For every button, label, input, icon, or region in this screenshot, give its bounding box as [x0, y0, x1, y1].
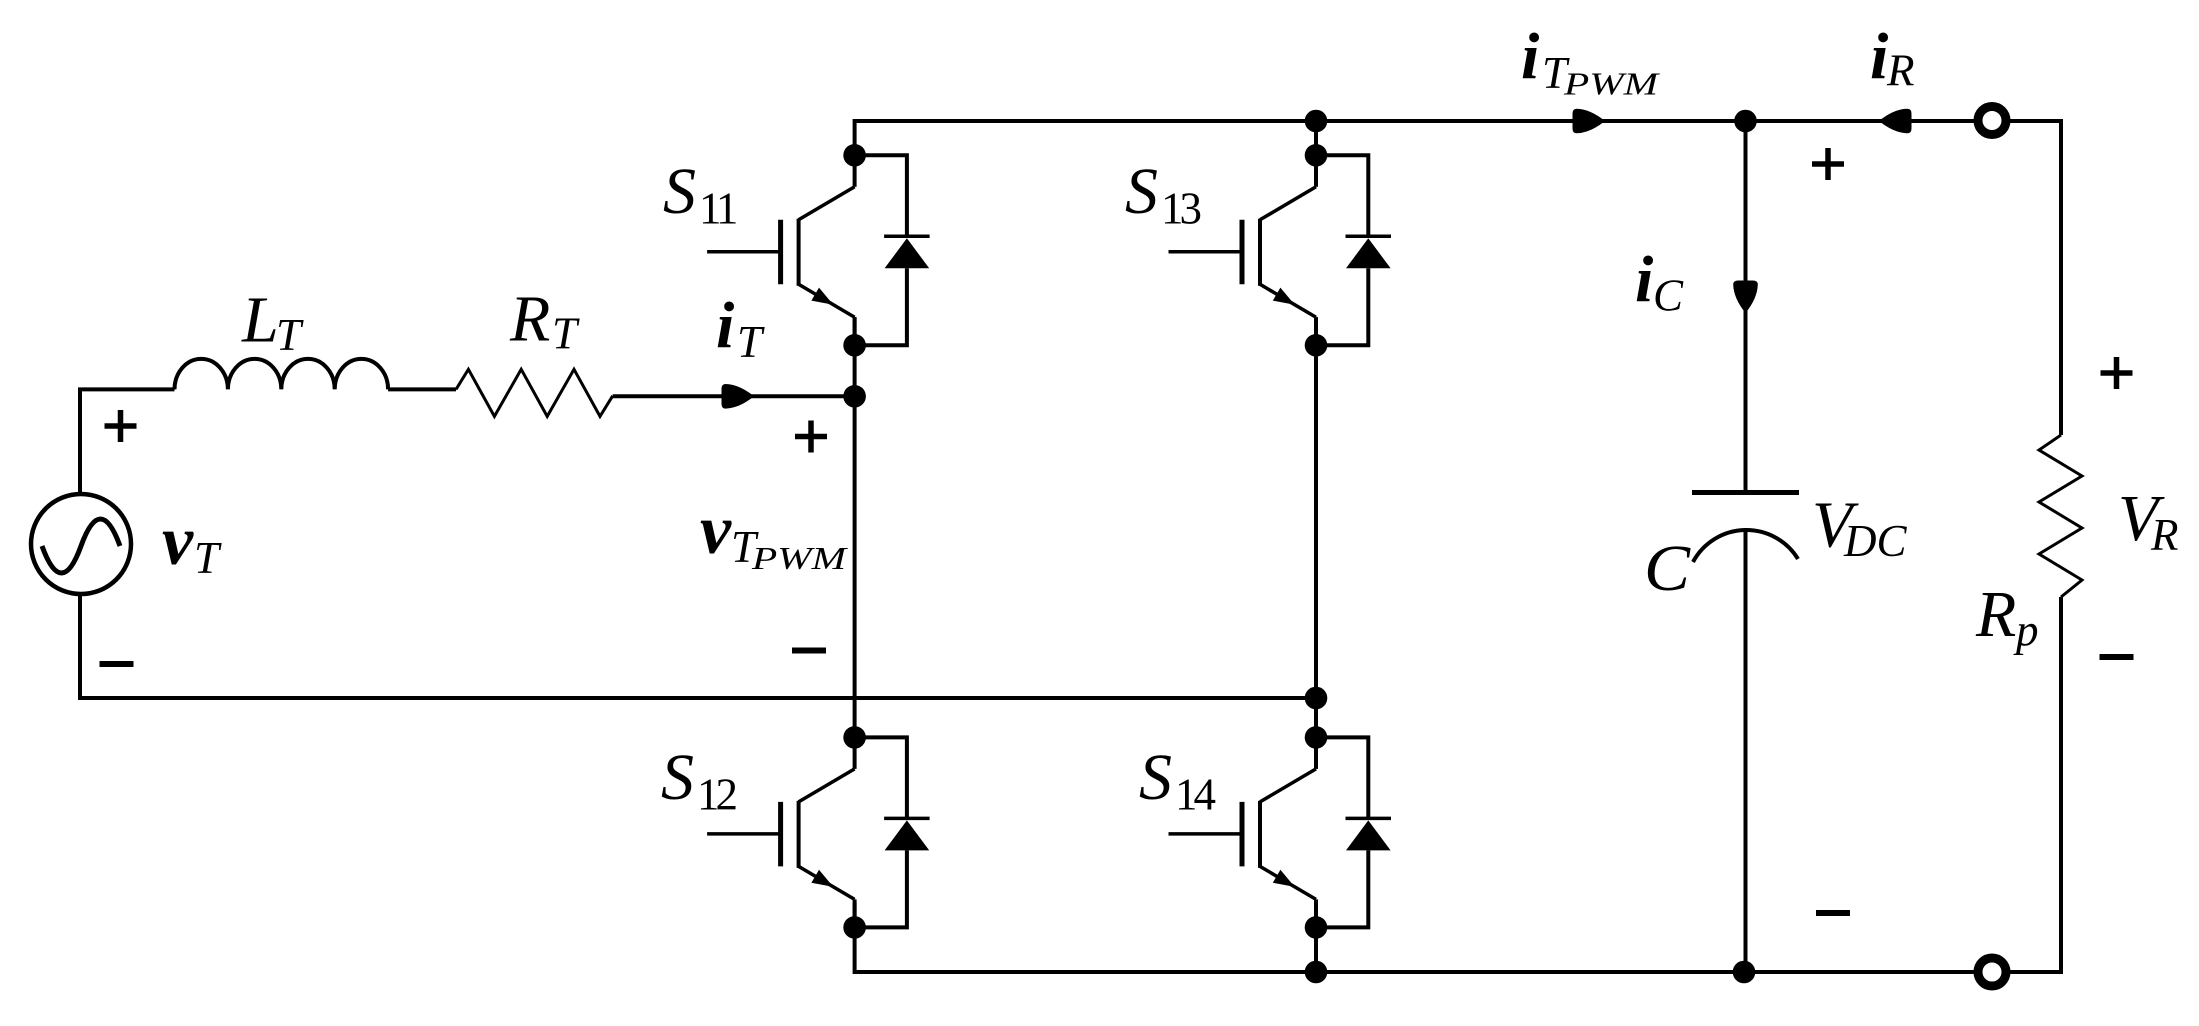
- label vTPWM: [700, 492, 848, 576]
- label Rp: [1975, 578, 2039, 655]
- transistor S13 (IGBT): [1169, 155, 1317, 345]
- label VDC: [1812, 489, 1907, 567]
- label iTPWM: [1521, 20, 1660, 102]
- node S12 collector dot: [843, 726, 866, 749]
- svg-text:i: i: [716, 289, 735, 362]
- label iC: [1635, 243, 1684, 321]
- svg-text:C: C: [1653, 271, 1684, 321]
- transistor S14 (IGBT): [1169, 737, 1317, 927]
- wire source top to inductor: [80, 389, 175, 495]
- svg-text:12: 12: [697, 770, 737, 820]
- terminal (bottom right, open circle): [1978, 958, 2006, 986]
- svg-text:DC: DC: [1843, 516, 1907, 566]
- capacitor C curved plate: [1693, 530, 1798, 562]
- svg-text:v: v: [162, 503, 194, 580]
- wire top rail: [855, 121, 2061, 435]
- svg-text:S: S: [1139, 741, 1172, 814]
- svg-text:S: S: [661, 741, 694, 814]
- wire top rail to S13: [1314, 121, 1318, 155]
- svg-text:T: T: [737, 317, 765, 367]
- minus sign of vTPWM: [792, 648, 826, 654]
- svg-text:S: S: [1125, 155, 1158, 228]
- minus sign of VDC: [1816, 910, 1850, 916]
- node capacitor bottom junction dot: [1733, 961, 1756, 984]
- transistor S11 (IGBT): [707, 155, 855, 345]
- label RT: [509, 283, 580, 359]
- arrow iR: [1879, 109, 1912, 134]
- node S12 emitter dot: [843, 916, 866, 939]
- wire capacitor to bottom rail: [1744, 530, 1748, 972]
- terminal (top right, open circle): [1978, 107, 2006, 135]
- plus sign of VDC: [1812, 148, 1844, 180]
- wire source bottom return to right leg midpoint: [80, 592, 1316, 698]
- minus sign of VR: [2100, 654, 2134, 660]
- svg-text:v: v: [700, 492, 732, 569]
- label iT: [716, 289, 765, 367]
- arrow iC: [1733, 281, 1758, 314]
- svg-text:11: 11: [699, 184, 736, 234]
- svg-text:13: 13: [1161, 184, 1201, 234]
- label iR: [1870, 20, 1915, 96]
- capacitor C top plate: [1692, 490, 1799, 495]
- node S13 emitter dot: [1305, 334, 1328, 357]
- svg-text:i: i: [1521, 20, 1540, 93]
- wire S14 emitter to bottom rail: [1314, 902, 1318, 972]
- node S11 emitter dot: [843, 334, 866, 357]
- diode of S11: [863, 155, 930, 345]
- wire bottom rail: [855, 597, 2061, 972]
- svg-text:PWM: PWM: [1563, 67, 1661, 102]
- label S14: [1139, 741, 1216, 820]
- svg-text:PWM: PWM: [751, 541, 849, 576]
- node S14 collector dot: [1305, 726, 1328, 749]
- svg-text:T: T: [276, 310, 304, 360]
- resistor RT: [456, 369, 613, 416]
- wire inductor to resistor: [388, 387, 456, 391]
- svg-text:R: R: [2150, 510, 2179, 560]
- svg-text:R: R: [1975, 578, 2016, 651]
- minus sign of vT: [100, 661, 134, 667]
- label C: [1644, 532, 1691, 605]
- svg-text:C: C: [1644, 532, 1691, 605]
- label S11: [663, 155, 736, 234]
- node S14 emitter dot: [1305, 916, 1328, 939]
- svg-text:i: i: [1635, 243, 1654, 316]
- svg-text:14: 14: [1175, 770, 1216, 820]
- node S13 rail junction dot: [1305, 110, 1328, 133]
- transistor S12 (IGBT): [707, 737, 855, 927]
- plus sign of vTPWM: [795, 421, 827, 453]
- svg-text:R: R: [1886, 46, 1915, 96]
- wire node down to S12 (crosses return wire, no connection): [853, 396, 857, 737]
- wire S11 emitter to node vTPWM: [853, 317, 857, 396]
- resistor Rp: [2039, 435, 2082, 597]
- node return wire junction dot: [1305, 687, 1328, 710]
- plus sign of VR: [2101, 357, 2133, 389]
- label S12: [661, 741, 737, 820]
- inductor LT: [175, 359, 389, 390]
- voltage source vT (AC, sine): [31, 494, 131, 594]
- diode of S12: [863, 737, 930, 927]
- wire S13 emitter to S14 collector (through return junction): [1314, 317, 1318, 737]
- label VR: [2118, 482, 2179, 560]
- svg-text:T: T: [194, 533, 222, 583]
- diode of S13: [1324, 155, 1391, 345]
- svg-text:R: R: [509, 283, 550, 356]
- wire resistor to bridge node: [613, 394, 855, 398]
- arrow iTPWM: [1573, 109, 1606, 134]
- label LT: [241, 284, 304, 361]
- diode of S14: [1324, 737, 1391, 927]
- label vT: [162, 503, 222, 583]
- svg-text:S: S: [663, 155, 696, 228]
- plus sign of vT: [105, 410, 137, 442]
- svg-text:T: T: [552, 309, 580, 359]
- node S14 bottom rail junction dot: [1305, 961, 1328, 984]
- node S11 collector dot: [843, 144, 866, 167]
- arrow iT: [722, 384, 755, 409]
- node iT junction dot: [843, 385, 866, 408]
- node S13 collector dot: [1305, 144, 1328, 167]
- node capacitor top junction dot: [1734, 110, 1757, 133]
- svg-text:L: L: [241, 284, 279, 357]
- wire top rail to capacitor: [1744, 121, 1748, 492]
- svg-text:p: p: [2013, 605, 2039, 655]
- label S13: [1125, 155, 1201, 234]
